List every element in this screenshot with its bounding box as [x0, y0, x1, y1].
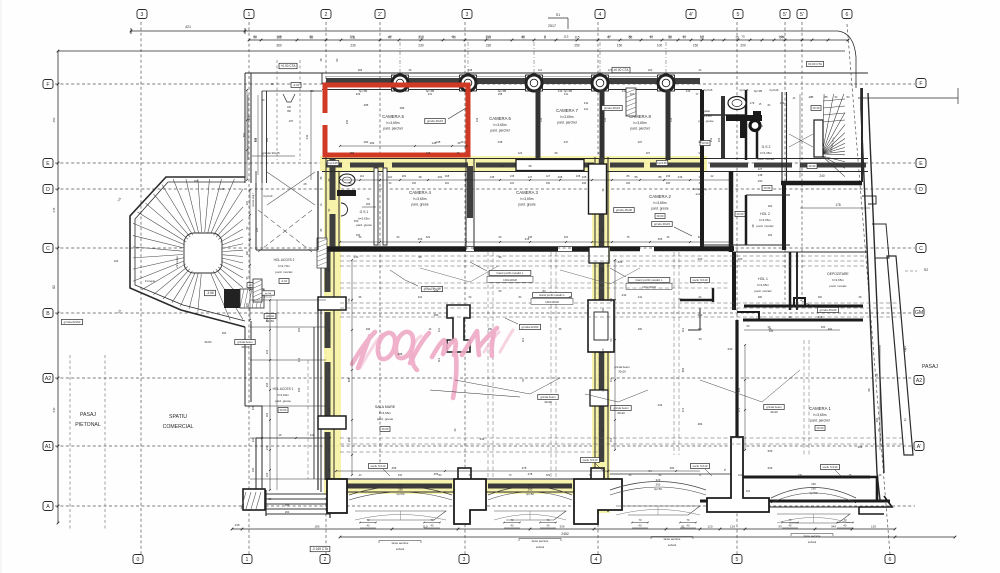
svg-text:478: 478: [522, 466, 527, 470]
sala mare left wall outer line: [325, 157, 327, 250]
middle corridor wall right line: [607, 157, 609, 512]
svg-text:A2: A2: [45, 376, 51, 382]
svg-text:826: 826: [618, 260, 623, 264]
svg-text:DEPOZITARE: DEPOZITARE: [827, 272, 849, 276]
svg-text:250: 250: [52, 117, 56, 122]
hatch block camera6 top wall: [626, 88, 636, 116]
svg-text:260: 260: [398, 488, 403, 492]
svg-text:pard. gresie: pard. gresie: [518, 202, 536, 206]
toilet block right wall lower: [782, 182, 786, 250]
dashed vertical x=70 pasaj: [69, 355, 71, 530]
spiral stair center ring: [184, 233, 222, 273]
wall stub x=797 y250-310: [796, 252, 798, 310]
svg-text:84: 84: [542, 289, 546, 293]
svg-text:68: 68: [528, 164, 532, 168]
svg-text:110: 110: [388, 175, 393, 179]
svg-text:63: 63: [498, 289, 502, 293]
svg-text:240: 240: [345, 119, 349, 124]
stair hatched landing +0.28: [240, 289, 264, 308]
vertical dashed beam pair x=676: [673, 252, 675, 455]
corridor strip tick rows: [250, 299, 326, 301]
svg-text:225: 225: [246, 200, 249, 205]
camera1 bottom soclu line right: [743, 477, 856, 479]
grid row line F at y=84: [55, 83, 915, 85]
label grinda 64x60 left: [264, 313, 276, 318]
svg-text:S1: S1: [556, 13, 560, 17]
svg-text:75: 75: [735, 35, 739, 39]
sala mare vertical dim chain x=615: [614, 260, 616, 450]
svg-text:64x60: 64x60: [204, 340, 212, 344]
right slanted wall inner line: [868, 93, 884, 473]
svg-text:82: 82: [52, 285, 56, 289]
svg-text:270: 270: [681, 407, 685, 412]
svg-text:SALA MARE: SALA MARE: [375, 405, 396, 409]
svg-text:hp=50: hp=50: [810, 491, 818, 495]
svg-text:237: 237: [598, 151, 603, 155]
corridor wall lower line: [322, 171, 868, 173]
grid column line 3 at x=465: [464, 22, 466, 554]
svg-text:4': 4': [689, 12, 693, 18]
pink handwriting 100 mp: [352, 328, 497, 398]
labels grinda 45x30 with leaders: [421, 286, 442, 291]
svg-text:21 trepte: 21 trepte: [175, 256, 179, 268]
svg-text:pard. gresie: pard. gresie: [698, 119, 714, 123]
svg-text:235: 235: [297, 387, 301, 392]
upper left wall outline detail: [251, 72, 322, 74]
svg-text:92: 92: [698, 140, 702, 144]
svg-text:-0.10: -0.10: [293, 83, 300, 87]
svg-text:237: 237: [289, 119, 294, 123]
svg-text:pard. gresie: pard. gresie: [377, 417, 394, 421]
svg-text:pard. parchet: pard. parchet: [557, 120, 577, 124]
svg-text:200: 200: [366, 202, 371, 206]
svg-text:113: 113: [437, 357, 441, 362]
label tirc descuier box: [261, 291, 274, 295]
bottom pier 1: [327, 479, 347, 513]
bottom wall fill left part: [346, 484, 452, 489]
svg-text:5: 5: [736, 557, 739, 563]
beam single dashed y=317: [340, 316, 900, 318]
HOL ACCES 2 X brace: [258, 210, 312, 252]
svg-text:3: 3: [466, 12, 469, 18]
sala mare left wall fill segments lower: [325, 250, 331, 292]
svg-text:2': 2': [378, 12, 382, 18]
entrance steps: [266, 493, 330, 495]
svg-text:D: D: [46, 187, 50, 193]
svg-text:484: 484: [698, 422, 703, 426]
svg-text:151: 151: [609, 437, 613, 442]
arch bay 771-856: [771, 488, 856, 499]
svg-text:211: 211: [350, 35, 355, 39]
svg-text:HOL 2: HOL 2: [760, 212, 770, 216]
svg-text:468: 468: [445, 174, 450, 178]
svg-text:133: 133: [686, 89, 691, 93]
svg-text:grinda beton: grinda beton: [540, 395, 556, 399]
svg-text:238: 238: [528, 236, 533, 239]
grinda beton leader lines: [430, 390, 520, 397]
left room dim chain x=247: [246, 90, 248, 180]
corridor junction white column: [589, 164, 607, 214]
stairwell lower fan treads: [822, 156, 845, 162]
vertical dashed beam pair x=553: [550, 252, 552, 479]
svg-text:127: 127: [546, 174, 551, 178]
svg-text:123: 123: [738, 474, 743, 477]
svg-text:240: 240: [819, 174, 825, 178]
svg-text:120: 120: [707, 524, 712, 528]
svg-text:187: 187: [602, 227, 605, 232]
top wall window sill lines: [326, 76, 391, 78]
column circle 1 on top wall: [392, 75, 409, 91]
svg-text:329: 329: [656, 478, 661, 482]
svg-text:135: 135: [510, 174, 515, 178]
octagonal stair bay outer wall: [130, 177, 245, 327]
top exterior wall outer line: [322, 72, 868, 74]
svg-text:G.S 2: G.S 2: [762, 145, 771, 149]
toilet block divider x=746: [745, 90, 748, 160]
svg-text:-0.10: -0.10: [281, 279, 288, 283]
bottom overall dim 2452: [340, 536, 955, 538]
svg-text:120: 120: [518, 151, 523, 155]
svg-text:150: 150: [617, 44, 623, 48]
left vertical dim inner x=248: [247, 95, 249, 160]
svg-text:336: 336: [559, 524, 564, 528]
octagonal stair bay inner wall: [135, 182, 245, 321]
svg-text:C: C: [46, 246, 50, 252]
svg-text:200: 200: [759, 125, 764, 128]
svg-text:133: 133: [475, 117, 479, 122]
svg-text:CAMERA 4: CAMERA 4: [409, 190, 431, 195]
svg-text:133: 133: [603, 117, 607, 122]
svg-text:2452: 2452: [561, 532, 569, 536]
label +-0.00 CTA right top: [807, 61, 824, 66]
svg-text:110: 110: [360, 174, 365, 178]
svg-text:100x100x8: 100x100x8: [545, 300, 559, 304]
svg-text:332: 332: [398, 474, 403, 477]
stairwell left dim line: [799, 94, 801, 178]
svg-text:50: 50: [628, 35, 632, 39]
svg-text:185: 185: [285, 503, 290, 507]
svg-text:CAMERA 3: CAMERA 3: [516, 190, 538, 195]
svg-text:260: 260: [811, 487, 816, 491]
grid markers bottom: [133, 555, 143, 564]
svg-text:111: 111: [538, 68, 542, 72]
bottom pier 3: [574, 479, 622, 524]
bottom pier 2: [454, 479, 486, 524]
svg-text:113: 113: [681, 327, 685, 332]
svg-text:40: 40: [388, 35, 392, 39]
svg-text:241: 241: [265, 349, 269, 354]
svg-text:113: 113: [328, 407, 331, 411]
svg-text:148: 148: [758, 173, 763, 177]
svg-text:150: 150: [354, 219, 359, 223]
top exterior wall fill segments: [326, 78, 391, 84]
corridor strip vertical line x=256: [255, 171, 257, 250]
svg-text:40: 40: [521, 35, 525, 39]
svg-text:360: 360: [698, 328, 703, 331]
column circle 5 on top wall: [658, 75, 675, 91]
yellow highlight middle vertical corridor: [592, 156, 610, 513]
svg-text:h=3,35m: h=3,35m: [760, 151, 772, 155]
hol acces1 corridor inner wall x=314: [313, 327, 315, 479]
svg-text:pard. parchet: pard. parchet: [810, 418, 830, 422]
svg-text:93: 93: [778, 524, 782, 528]
spalie dark wall bar: [721, 96, 725, 158]
svg-text:434: 434: [434, 289, 439, 293]
grid column line 2 at x=326: [325, 22, 327, 554]
extra dashed beam rows y283: [340, 282, 730, 284]
svg-text:30x20: 30x20: [241, 345, 249, 349]
svg-text:grinda 45x30: grinda 45x30: [820, 308, 837, 312]
svg-text:281: 281: [438, 175, 443, 179]
svg-text:pard. parchet: pard. parchet: [383, 126, 403, 130]
svg-text:fante aerisire: fante aerisire: [532, 539, 549, 543]
middle corridor wall left line: [594, 157, 596, 512]
label grinda 62x60: [519, 324, 540, 329]
svg-text:100x100x8: 100x100x8: [642, 285, 656, 289]
svg-text:100: 100: [780, 101, 785, 105]
stairwell left X brace: [789, 134, 813, 147]
svg-text:179: 179: [608, 68, 613, 72]
svg-text:82: 82: [309, 35, 313, 39]
svg-text:640: 640: [728, 347, 733, 351]
grid column line 5' at x=785: [784, 22, 786, 300]
svg-text:±0.00: ±0.00: [817, 426, 824, 430]
svg-text:282: 282: [350, 151, 355, 155]
svg-text:344: 344: [265, 137, 269, 142]
svg-text:CAMERA 1: CAMERA 1: [809, 406, 831, 411]
svg-text:200: 200: [698, 257, 703, 261]
svg-text:115: 115: [574, 35, 579, 39]
svg-text:±0.00: ±0.00: [657, 214, 664, 218]
svg-text:100x100x8: 100x100x8: [503, 278, 517, 282]
dim row above entrance y=438: [262, 437, 330, 439]
svg-text:478: 478: [528, 472, 533, 476]
yellow highlight horizontal corridor top: [320, 156, 707, 171]
right top reference line y=98: [858, 97, 958, 99]
svg-text:soclu h=110: soclu h=110: [693, 464, 708, 468]
svg-text:descuier: descuier: [264, 296, 273, 299]
svg-text:50: 50: [668, 35, 672, 39]
bottom pier 4 with footing: [707, 437, 769, 512]
svg-text:4: 4: [595, 557, 598, 563]
svg-text:6: 6: [889, 557, 892, 563]
svg-text:3: 3: [463, 557, 466, 563]
svg-text:tiranti profili metalici L: tiranti profili metalici L: [636, 278, 663, 282]
svg-text:270: 270: [737, 407, 741, 412]
svg-text:PASAJ: PASAJ: [80, 412, 96, 418]
svg-text:300: 300: [818, 296, 823, 299]
svg-text:236: 236: [666, 174, 671, 178]
sink dark ring: [750, 121, 760, 131]
camera1 top wall y=320: [743, 319, 863, 322]
dashed vertical x=300 upper: [299, 60, 301, 160]
svg-text:hp=115: hp=115: [704, 88, 713, 92]
svg-text:281: 281: [402, 174, 407, 178]
svg-text:480: 480: [698, 313, 703, 317]
grid column line 1 at x=249: [248, 22, 250, 554]
camera1 vertical dim chain x=745: [744, 345, 746, 450]
svg-text:300: 300: [818, 315, 823, 319]
vertical dashed beam pair x=490: [487, 252, 489, 479]
label +-0.50 box gs2: [700, 141, 710, 146]
svg-text:±0.50: ±0.50: [702, 141, 709, 145]
stair bay dim chain x=250: [249, 190, 251, 320]
svg-text:tirc filb: tirc filb: [265, 292, 272, 295]
svg-text:HOL 1: HOL 1: [758, 277, 768, 281]
svg-text:231: 231: [428, 92, 433, 96]
small wall y=203 right of stair: [862, 196, 876, 204]
svg-text:h=3,15m: h=3,15m: [700, 114, 712, 118]
svg-text:111: 111: [584, 107, 589, 111]
left room inner wall vertical pair: [261, 91, 263, 183]
dim chain above rooms y176: [340, 179, 730, 181]
svg-text:90: 90: [788, 315, 792, 319]
labels grinda beton 30x20: [538, 395, 559, 400]
hol1 depozitare divider x=790: [789, 252, 792, 310]
svg-text:662: 662: [681, 367, 685, 372]
grid row line D at y=189: [55, 188, 915, 190]
svg-text:100: 100: [657, 44, 663, 48]
svg-text:-0.165 CTA: -0.165 CTA: [312, 547, 329, 551]
svg-text:5': 5': [800, 12, 804, 18]
svg-text:hp=115: hp=115: [770, 88, 779, 92]
svg-text:434: 434: [658, 403, 663, 407]
toilet block wall y=115: [702, 114, 746, 116]
svg-text:hp=50: hp=50: [654, 487, 662, 491]
svg-text:pard. gresie: pard. gresie: [275, 399, 291, 403]
toilet fixture oval: [728, 97, 746, 110]
svg-text:260: 260: [528, 488, 533, 492]
svg-text:468: 468: [366, 328, 371, 331]
svg-text:grinda beton: grinda beton: [613, 406, 629, 410]
hol acces bottom dashed opening: [256, 249, 318, 251]
svg-text:96: 96: [498, 255, 502, 259]
svg-text:464: 464: [876, 417, 879, 422]
svg-text:185: 185: [276, 35, 281, 39]
camera6 camera7 divider dark wall x=538: [536, 90, 541, 160]
svg-text:311: 311: [584, 101, 589, 105]
svg-text:0: 0: [137, 557, 140, 563]
svg-text:Acces etaj I: Acces etaj I: [251, 193, 255, 207]
sala mare left wall step jog: [321, 249, 339, 251]
stairwell right boundary wall: [861, 88, 863, 182]
corridor wall fill segments: [326, 163, 342, 168]
svg-text:108: 108: [576, 174, 581, 178]
svg-text:237: 237: [564, 140, 569, 144]
svg-text:103: 103: [746, 490, 751, 493]
svg-text:465: 465: [666, 182, 671, 185]
right top reference vertical x=958: [957, 88, 959, 104]
stairwell center white newel: [814, 120, 823, 157]
svg-text:1 chepeng,: 1 chepeng,: [693, 187, 708, 191]
svg-text:h=3,65m: h=3,65m: [414, 197, 427, 201]
svg-text:A: A: [46, 504, 50, 510]
camera4 camera5 divider wall x=470: [465, 158, 467, 250]
svg-text:180: 180: [246, 250, 249, 255]
labels tiranti profili metalici: [489, 271, 531, 276]
svg-text:D: D: [919, 187, 923, 193]
right dim chain x=880 rotated: [879, 345, 881, 450]
svg-text:329: 329: [528, 483, 533, 487]
svg-text:HOL ACCES 2: HOL ACCES 2: [274, 258, 295, 262]
right slanted wall outer line: [860, 88, 862, 110]
svg-text:150: 150: [693, 44, 699, 48]
svg-text:464: 464: [828, 328, 833, 331]
toilet dark plumbing T bar: [726, 115, 762, 121]
svg-text:h=3,65m: h=3,65m: [634, 121, 647, 125]
svg-text:215: 215: [510, 182, 515, 185]
stairwell label +-0.30: [807, 164, 817, 169]
corridor strip vertical line x=262: [261, 183, 263, 250]
svg-text:pard. gresie: pard. gresie: [356, 223, 372, 227]
hatch block corridor left: [253, 279, 262, 302]
svg-text:75: 75: [741, 35, 745, 39]
svg-text:S2: S2: [924, 268, 928, 272]
red marker rectangle around camera 5: [325, 85, 468, 155]
svg-text:subsol: subsol: [668, 543, 677, 547]
depozitare top wall y=252: [734, 251, 868, 253]
svg-text:±0.00 CTA: ±0.00 CTA: [808, 62, 822, 66]
svg-text:444: 444: [480, 437, 485, 441]
svg-text:PIETONAL: PIETONAL: [75, 422, 101, 428]
grid markers left: [43, 80, 53, 89]
gs1 black plumbing bar: [337, 190, 356, 196]
right slanted wall bottom join: [877, 473, 880, 500]
svg-text:fante aerisire: fante aerisire: [804, 534, 821, 538]
beam dashed lines upper group: [340, 255, 865, 257]
svg-text:230: 230: [114, 259, 119, 263]
svg-text:COMERCIAL: COMERCIAL: [163, 424, 194, 430]
svg-text:46: 46: [460, 140, 464, 144]
hol1 small walls: [680, 299, 713, 301]
svg-text:21 trepte: 21 trepte: [145, 279, 156, 283]
svg-text:486: 486: [400, 106, 405, 110]
svg-text:225: 225: [246, 302, 249, 307]
bottom pier 5 right corner step: [859, 496, 892, 514]
column circle 2 on top wall: [460, 75, 477, 91]
svg-text:241: 241: [297, 357, 301, 362]
central pier cross shape: [447, 305, 470, 352]
corridor wall white block segment: [516, 160, 584, 171]
middle wall white pier y247: [589, 247, 609, 263]
bottom left entrance pier: [243, 489, 265, 510]
grid markers inner right: [914, 308, 924, 317]
svg-text:429: 429: [418, 237, 423, 241]
svg-text:207: 207: [646, 151, 651, 155]
corridor strip dim verticals x=270: [269, 300, 271, 490]
left exterior wall x=245: [244, 73, 246, 183]
v notch symbol: [283, 94, 295, 102]
svg-text:44: 44: [808, 95, 812, 99]
grid markers right: [916, 79, 926, 88]
svg-text:pard. gresie: pard. gresie: [651, 206, 669, 210]
svg-text:207: 207: [638, 140, 643, 144]
svg-text:±0.56: ±0.56: [764, 186, 771, 190]
arch bay 349-452: [349, 487, 452, 496]
label grinda 30x15 camera7: [602, 106, 623, 111]
svg-text:h=3,60m: h=3,60m: [277, 393, 289, 397]
svg-text:480: 480: [434, 313, 439, 317]
svg-text:111: 111: [609, 377, 613, 381]
svg-text:200: 200: [738, 257, 743, 261]
svg-text:grinda 45x30: grinda 45x30: [616, 208, 633, 212]
svg-text:Spalie: Spalie: [702, 109, 710, 113]
svg-text:subsol: subsol: [536, 545, 545, 549]
svg-text:207: 207: [630, 92, 635, 96]
svg-text:150: 150: [265, 317, 269, 322]
grid row line C at y=248: [55, 247, 915, 249]
svg-text:soclu h=110: soclu h=110: [371, 464, 386, 468]
